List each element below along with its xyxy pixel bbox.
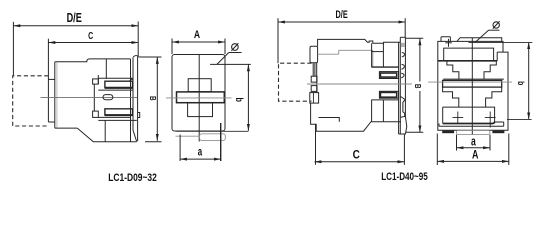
svg-text:C: C bbox=[353, 149, 360, 162]
svg-text:A: A bbox=[194, 29, 200, 41]
svg-text:D/E: D/E bbox=[67, 11, 83, 25]
svg-text:a: a bbox=[471, 135, 476, 149]
svg-text:LC1-D09~32: LC1-D09~32 bbox=[108, 172, 157, 184]
svg-text:B: B bbox=[148, 96, 158, 101]
svg-text:B: B bbox=[413, 84, 423, 89]
svg-text:a: a bbox=[198, 146, 203, 159]
svg-text:b: b bbox=[234, 97, 245, 101]
svg-text:b: b bbox=[516, 81, 526, 85]
svg-text:A: A bbox=[472, 148, 479, 162]
svg-text:LC1-D40~95: LC1-D40~95 bbox=[381, 171, 428, 184]
svg-text:D/E: D/E bbox=[336, 8, 348, 21]
svg-text:C: C bbox=[88, 29, 94, 41]
